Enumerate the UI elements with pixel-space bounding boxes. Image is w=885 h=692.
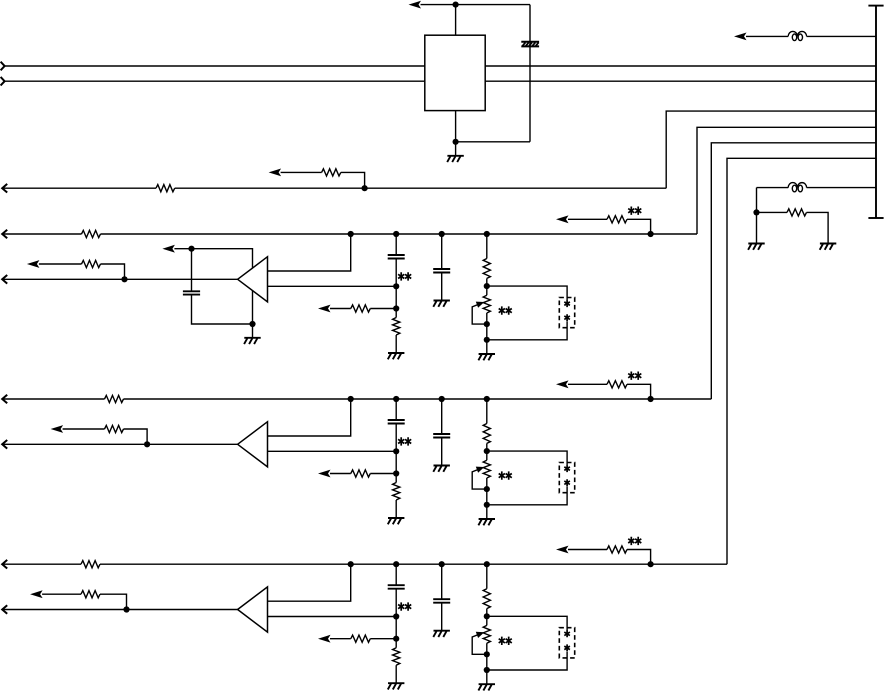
node mid-2b	[393, 470, 399, 476]
ground under R15	[388, 353, 405, 359]
arrow R16 branch	[318, 305, 331, 313]
inductor L2	[788, 183, 806, 192]
node top-3c	[439, 561, 445, 567]
ground under C32	[433, 631, 450, 637]
node top-2a	[348, 396, 354, 402]
node A	[453, 2, 459, 8]
resistor R27 (divider)	[483, 424, 490, 444]
label ** pot R28	[499, 471, 512, 479]
arrow channel 3 feed	[556, 546, 569, 554]
node top-1d	[484, 231, 490, 237]
potentiometer R28	[483, 460, 490, 478]
connector arrow net row	[2, 184, 7, 193]
wire supply tap 1 to net row	[666, 111, 876, 188]
resistor R14 (feed)	[607, 216, 627, 223]
wire R16 branch	[330, 308, 396, 310]
label ** pot R18	[499, 306, 512, 314]
node top-2c	[439, 396, 445, 402]
op-amp U2	[238, 422, 268, 467]
node pot-2c	[484, 502, 490, 508]
wire R36 branch	[330, 638, 396, 640]
resistor R34 (feed)	[607, 546, 627, 553]
wire C22 chain	[441, 399, 443, 466]
arrow R36 branch	[318, 635, 331, 643]
resistor R15 (termination)	[393, 318, 400, 335]
capacitor C13 (feedback)	[183, 291, 200, 294]
resistor R12 (return line)	[82, 260, 101, 267]
resistor R11 (top line)	[82, 230, 101, 237]
wire transducer T2 top	[487, 451, 567, 465]
transducer T3 (dashed box)	[559, 628, 574, 658]
wire channel 1 top line	[2, 233, 697, 235]
wire channel 3 return line	[42, 594, 126, 609]
resistor R1	[156, 185, 175, 192]
capacitor C12	[433, 269, 450, 273]
arrow pot-1 wiper	[476, 302, 485, 308]
wire top control line	[421, 4, 531, 6]
wire pot-1 lower	[486, 313, 488, 354]
ground under R25	[388, 518, 405, 524]
wire L2 to node D	[756, 188, 758, 213]
arrow pot-2 wiper	[476, 467, 485, 473]
wire C21 chain	[395, 399, 397, 483]
resistor R3	[787, 209, 806, 216]
wire feedback top	[174, 249, 252, 324]
wire pot-3 wiper	[472, 633, 487, 654]
resistor R2	[322, 169, 341, 176]
wire C12 chain	[441, 234, 443, 301]
wire bus line 1	[5, 65, 876, 67]
arrow feedback	[162, 245, 175, 253]
connector chevron bus line 1	[1, 62, 5, 71]
capacitor C31	[388, 585, 405, 589]
wire channel 3 supply feed	[568, 550, 651, 565]
arrow R2 branch	[269, 169, 282, 177]
node pot-3a	[484, 613, 490, 619]
wire op-amp U2 non-inverting input	[268, 399, 351, 436]
node B	[453, 139, 459, 145]
wire R37 chain	[486, 564, 488, 589]
node fb-a	[188, 246, 194, 252]
arrow top control line	[409, 1, 422, 9]
potentiometer R38	[483, 625, 490, 643]
node out-1	[121, 276, 127, 282]
inductor L1	[788, 31, 806, 40]
resistor R36	[351, 635, 370, 642]
resistor R35 (termination)	[393, 648, 400, 666]
label ** C21	[398, 437, 411, 445]
wire C11 chain	[395, 234, 397, 318]
node top-2b	[393, 396, 399, 402]
ground under C12	[433, 301, 450, 307]
ground left of R3	[748, 244, 765, 250]
resistor R21 (top line)	[105, 395, 124, 402]
resistor R25 (termination)	[393, 483, 400, 500]
wire channel 2 top line	[2, 398, 711, 400]
wire channel 2 supply feed	[568, 384, 651, 399]
wire channel 3 output line	[2, 609, 237, 611]
ground under C22	[433, 466, 450, 472]
wire channel 3 top line	[2, 563, 727, 565]
wire supply tap 3 to channel 2	[711, 143, 876, 399]
wire feedback cap leads	[192, 249, 253, 324]
ground feedback	[244, 338, 261, 344]
element star T3 upper	[564, 630, 570, 637]
ground under module U1	[447, 156, 464, 162]
wire op-amp U2 inverting input	[268, 450, 397, 452]
connector arrow channel 1 top	[2, 230, 7, 239]
wire module U1 top lead	[455, 5, 457, 36]
node pot-3b	[484, 651, 490, 657]
node top-3a	[348, 561, 354, 567]
wire op-amp U3 non-inverting input	[268, 564, 351, 601]
element star T2 upper	[564, 465, 570, 472]
wire R37 to pot	[486, 609, 488, 626]
wire op-amp U1 non-inverting input	[268, 234, 351, 271]
resistor R17 (divider)	[483, 259, 490, 279]
connector arrow channel 3 top	[2, 560, 7, 569]
node top-1a	[348, 231, 354, 237]
wire R17 chain	[486, 234, 488, 259]
power bus bar	[868, 6, 883, 218]
connector arrow channel 2 output	[2, 440, 7, 449]
node top-1e	[648, 231, 654, 237]
arrow channel 1 feed	[556, 215, 569, 223]
wire transducer T3 bottom	[487, 652, 567, 670]
label ** C31	[398, 602, 411, 610]
node mid-1a	[393, 283, 399, 289]
connector arrow channel 2 top	[2, 395, 7, 404]
wire channel 1 supply feed	[568, 219, 651, 234]
node pot-1c	[484, 337, 490, 343]
label ** feed resistor ch3	[628, 537, 641, 545]
chassis ground symbol	[521, 42, 539, 47]
wire shield drop	[529, 5, 531, 142]
op-amp U3	[238, 587, 268, 632]
ground under R35	[388, 683, 405, 689]
resistor R16	[351, 305, 370, 312]
ground under pot R28	[478, 519, 495, 525]
node top-1c	[439, 231, 445, 237]
wire supply tap 4 to channel 3	[727, 158, 876, 564]
element star T1 upper	[564, 300, 570, 307]
arrow channel 2 feed	[556, 380, 569, 388]
wire inductor L1 line	[746, 35, 876, 37]
label ** feed resistor ch2	[628, 372, 641, 380]
wire channel 2 return line	[63, 429, 148, 444]
node out-2	[144, 441, 150, 447]
wire R35 to ground	[395, 665, 397, 683]
connector arrow channel 3 output	[2, 605, 7, 614]
wire transducer T1 top	[487, 286, 567, 300]
node mid-3a	[393, 613, 399, 619]
arrow R26 branch	[318, 470, 331, 478]
node top-3e	[648, 561, 654, 567]
wire R27 chain	[486, 399, 488, 424]
ground right of R3	[820, 244, 837, 250]
wire op-amp U1 inverting input	[268, 285, 397, 287]
node pot-3c	[484, 667, 490, 673]
wire pot-3 lower	[486, 643, 488, 684]
ground under pot R18	[478, 354, 495, 360]
wire pot-1 wiper	[472, 303, 487, 324]
node fb-b	[249, 321, 255, 327]
element star T3 lower	[564, 644, 570, 651]
module U1	[425, 35, 485, 110]
element star T1 lower	[564, 314, 570, 321]
resistor R26	[351, 470, 370, 477]
node top-3d	[484, 561, 490, 567]
node top-3b	[393, 561, 399, 567]
wire transducer T1 bottom	[487, 322, 567, 340]
wire node B to ground	[455, 142, 457, 156]
element star T2 lower	[564, 479, 570, 486]
label ** feed resistor ch1	[628, 207, 641, 215]
potentiometer R18	[483, 295, 490, 313]
wire module U1 bottom lead	[455, 111, 457, 142]
wire R26 branch	[330, 473, 396, 475]
wire transducer T3 top	[487, 616, 567, 630]
wire channel 2 output line	[2, 443, 237, 445]
node pot-2a	[484, 448, 490, 454]
resistor R22 (return line)	[105, 425, 124, 432]
wire R17 to pot	[486, 278, 488, 295]
node mid-3b	[393, 636, 399, 642]
connector chevron bus line 2	[1, 77, 5, 86]
capacitor C11	[388, 255, 405, 259]
wire net row line	[2, 187, 666, 189]
wire C31 chain	[395, 564, 397, 648]
wire bus line 2	[5, 80, 876, 82]
capacitor C32	[433, 599, 450, 603]
transducer T2 (dashed box)	[559, 463, 574, 493]
wire fb node to ground	[252, 324, 254, 338]
node out-3	[123, 606, 129, 612]
resistor R24 (feed)	[607, 381, 627, 388]
wire R27 to pot	[486, 443, 488, 460]
node top-2e	[648, 396, 654, 402]
wire channel 1 output line	[2, 278, 237, 280]
arrow channel 3 return	[30, 590, 42, 598]
transducer T1 (dashed box)	[559, 298, 574, 328]
wire R15 to ground	[395, 335, 397, 353]
wire transducer T2 bottom	[487, 487, 567, 505]
resistor R31 (top line)	[81, 561, 100, 568]
wire R25 to ground	[395, 500, 397, 518]
node mid-1b	[393, 305, 399, 311]
node pot-1b	[484, 321, 490, 327]
arrow channel 2 return	[51, 425, 64, 433]
wire C32 chain	[441, 564, 443, 631]
label ** pot R38	[499, 637, 512, 645]
wire pot-2 lower	[486, 478, 488, 519]
node top-2d	[484, 396, 490, 402]
label ** C11	[398, 272, 411, 280]
wire supply tap 2 to channel 1	[697, 127, 876, 234]
wire node D to ground	[756, 212, 758, 243]
wire op-amp U3 inverting input	[268, 616, 397, 618]
node pot-1a	[484, 283, 490, 289]
arrow channel 1 return	[27, 260, 40, 268]
node C	[362, 185, 368, 191]
connector arrow channel 1 output	[2, 275, 7, 284]
wire R2 branch	[281, 172, 365, 188]
wire inductor L2 line	[757, 187, 877, 189]
wire channel 1 return line	[39, 264, 125, 279]
resistor R37 (divider)	[483, 589, 490, 609]
capacitor C22	[433, 434, 450, 438]
wire R3 line	[757, 212, 829, 243]
arrow L1 line	[734, 33, 747, 41]
ground under pot R38	[478, 684, 495, 690]
resistor R32 (return line)	[81, 591, 100, 598]
node D	[753, 209, 759, 215]
node mid-2a	[393, 448, 399, 454]
node pot-2b	[484, 486, 490, 492]
node top-1b	[393, 231, 399, 237]
wire shield return	[456, 141, 530, 143]
op-amp U1	[238, 257, 268, 302]
arrow pot-3 wiper	[476, 632, 485, 638]
wire pot-2 wiper	[472, 468, 487, 489]
capacitor C21	[388, 420, 405, 424]
